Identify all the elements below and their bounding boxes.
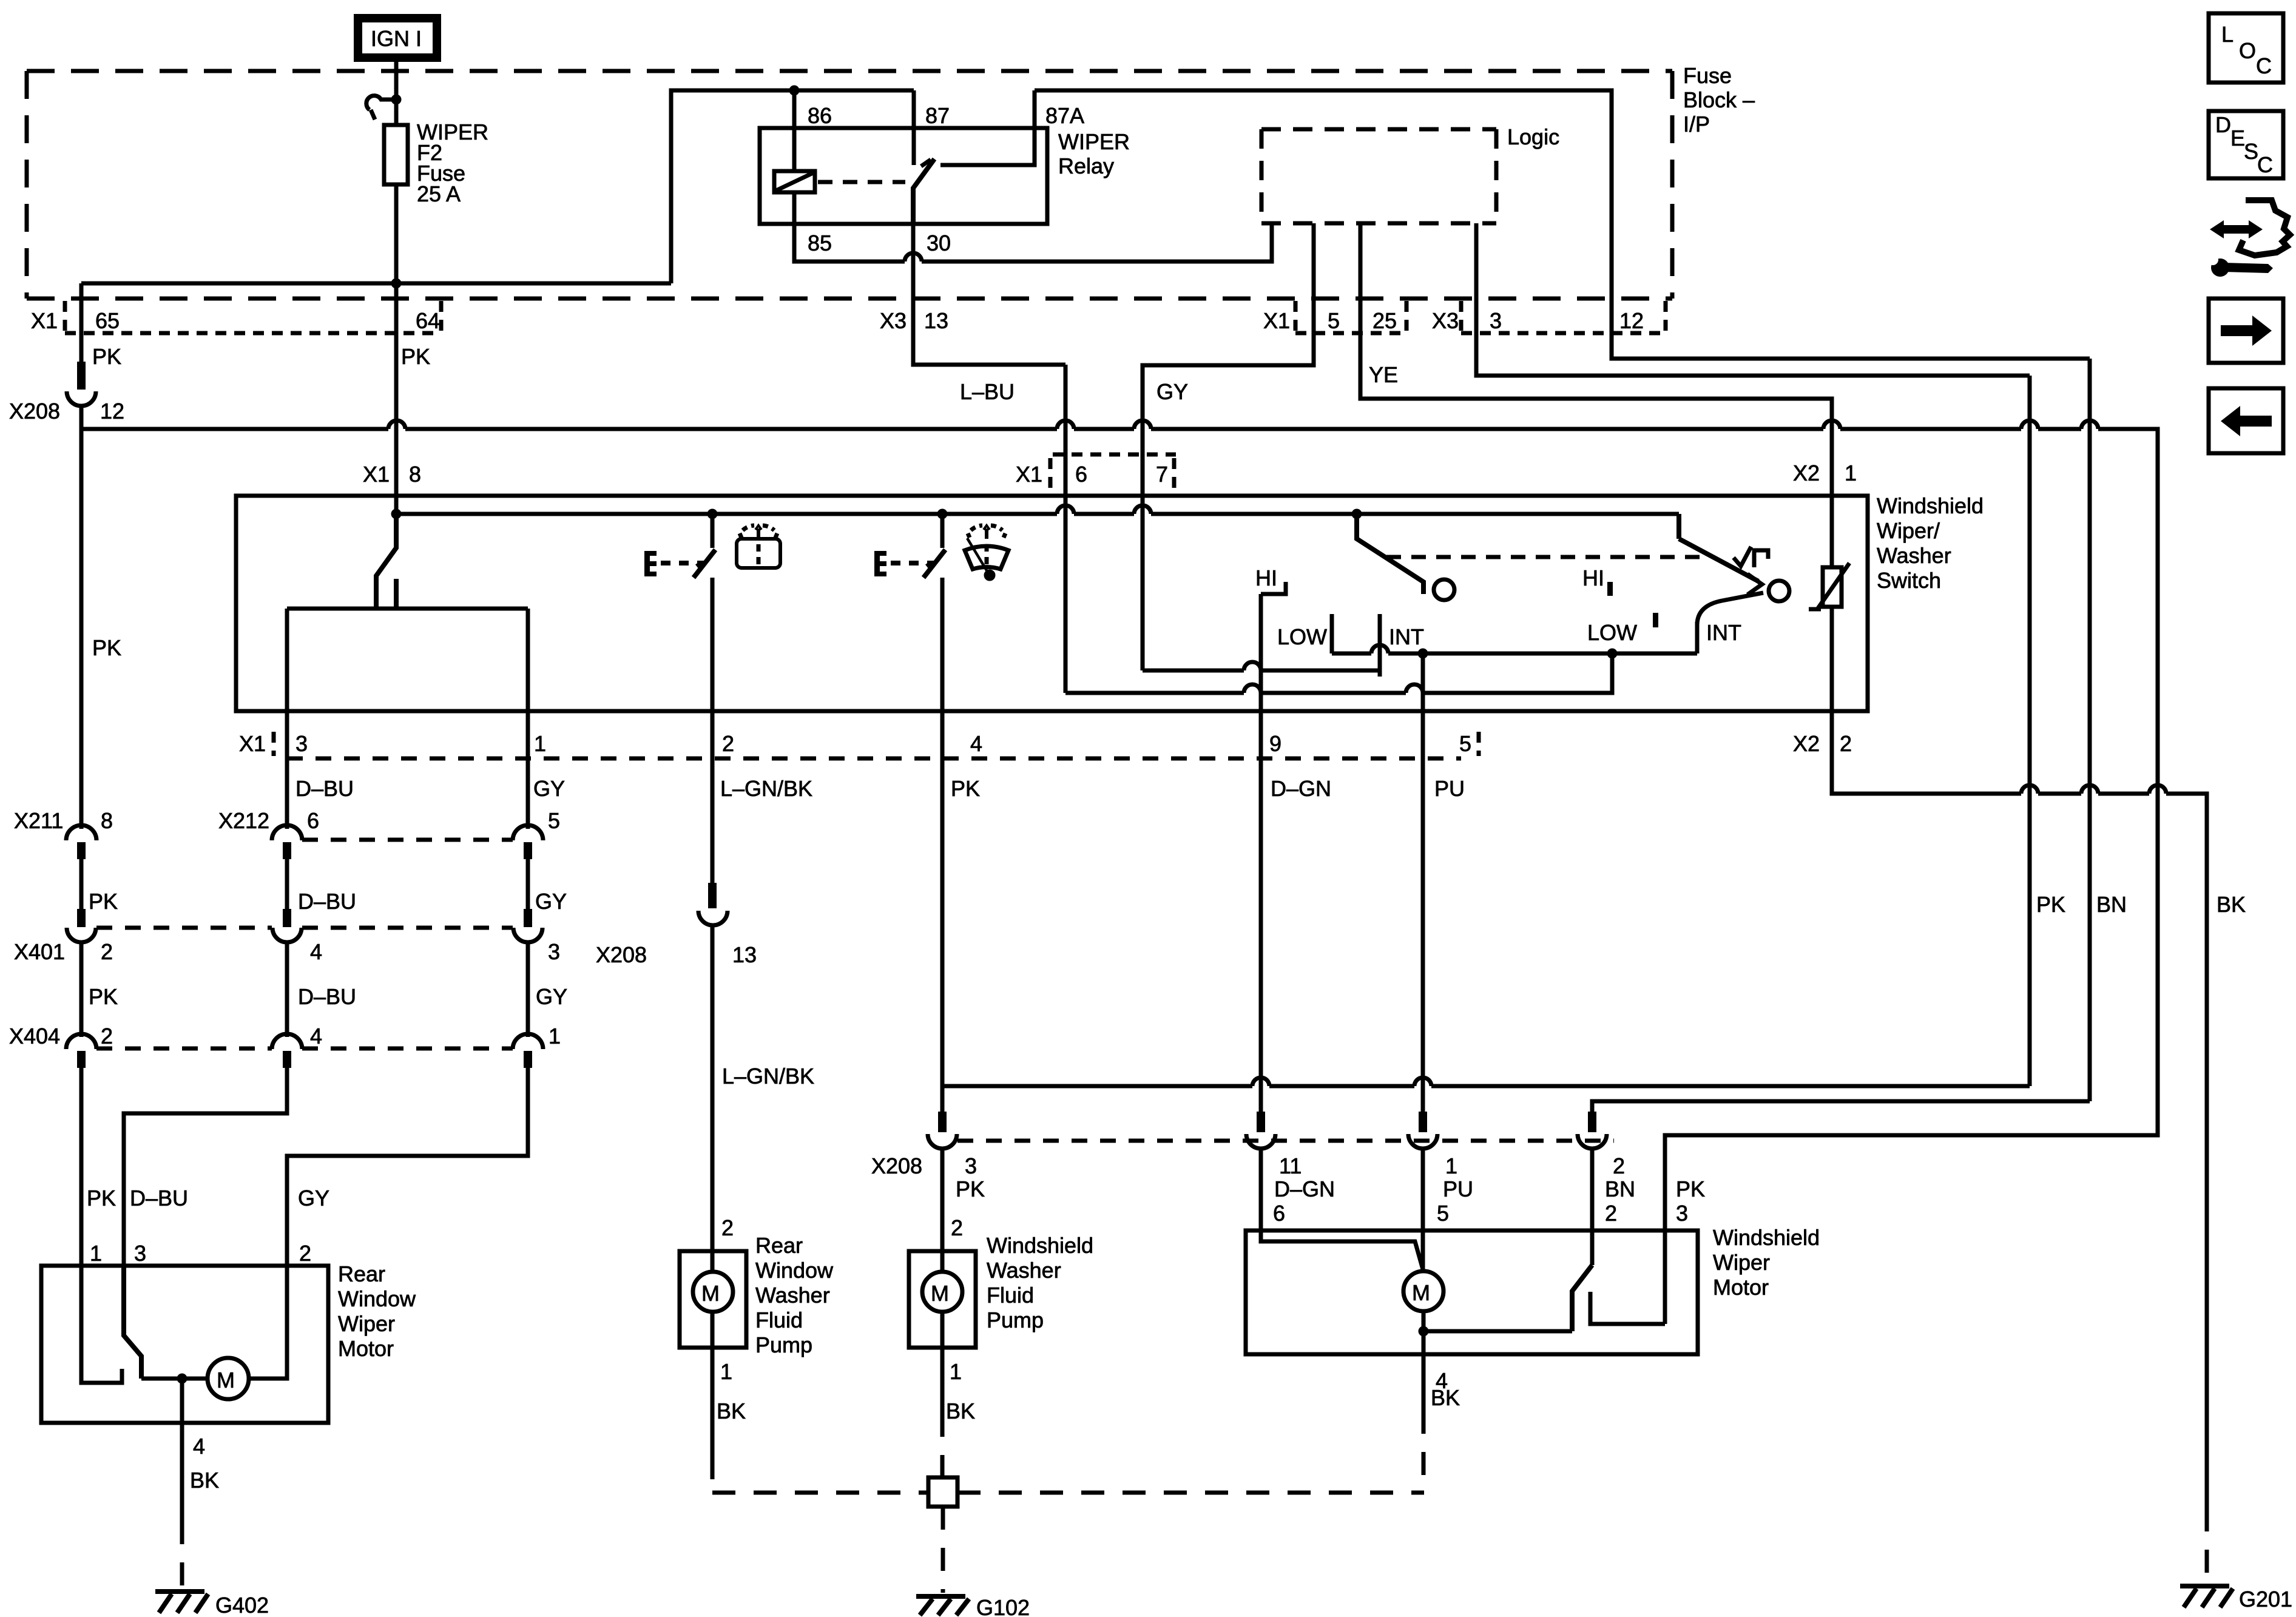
LOW right tick <box>1653 613 1658 627</box>
wire BK right dashed to G201 <box>2205 1508 2209 1582</box>
switch feed rail <box>396 512 1057 516</box>
wire relay 85 to logic continued <box>922 223 1272 262</box>
L-BU run 2 <box>1261 691 1406 695</box>
svg-text:3: 3 <box>1490 308 1502 333</box>
svg-text:PK: PK <box>956 1176 985 1201</box>
wire washer pump BK <box>940 1348 945 1414</box>
label Rear Window Washer Fluid Pump <box>755 1233 834 1357</box>
wiper motor M circle <box>1403 1271 1443 1311</box>
svg-text:Washer: Washer <box>1877 543 1951 568</box>
svg-text:PK: PK <box>89 984 118 1009</box>
logic module dashed box <box>1261 129 1496 223</box>
BK line mid <box>2038 792 2081 796</box>
svg-text:3: 3 <box>134 1241 146 1266</box>
svg-text:PK: PK <box>951 776 980 801</box>
svg-text:X2: X2 <box>1793 461 1820 485</box>
connector X208:1 cup <box>1408 1134 1437 1149</box>
tools/arrows icon <box>2207 200 2290 277</box>
connector X401:4 pin <box>283 909 291 927</box>
hop bus over X3:12 wire <box>2081 420 2098 429</box>
svg-text:Switch: Switch <box>1877 568 1941 593</box>
hop BK line over X3:3 vert <box>2021 785 2038 794</box>
connector X208:2 pin <box>1588 1112 1596 1132</box>
svg-text:1: 1 <box>1845 461 1857 485</box>
svg-text:4: 4 <box>310 939 322 964</box>
junction dot rail main blade <box>391 509 402 519</box>
junction dot LOW/L-BU <box>1607 649 1618 659</box>
svg-text:D–GN: D–GN <box>1274 1176 1335 1201</box>
svg-text:5: 5 <box>548 808 560 833</box>
rear washer switch blade <box>694 550 715 578</box>
connector X1:6/7 dashed box <box>1050 454 1176 490</box>
right selector blade diagonal <box>1679 539 1758 581</box>
svg-text:GY: GY <box>536 984 567 1009</box>
svg-text:HI: HI <box>1582 565 1604 590</box>
connector X208:3 cup <box>928 1134 957 1149</box>
speed selector blade <box>1357 514 1423 594</box>
wire X3:3 logic to right side <box>1476 223 2030 376</box>
connector X404:2 arc <box>66 1034 96 1049</box>
wire BN run <box>1592 1101 2090 1112</box>
svg-text:1: 1 <box>1445 1153 1457 1178</box>
svg-text:Windshield: Windshield <box>987 1233 1093 1258</box>
main switch fixed stub <box>394 579 399 609</box>
connector X208:13 cup <box>698 911 728 925</box>
rear motor pin2 GY internal <box>249 1266 287 1379</box>
junction dot rail selector <box>1352 509 1362 519</box>
wire L-GN/BK to rear pump <box>711 925 715 1251</box>
svg-text:2: 2 <box>722 731 734 756</box>
right blade rest circle <box>1769 581 1789 601</box>
svg-text:Window: Window <box>755 1258 834 1283</box>
svg-text:7: 7 <box>1156 462 1168 487</box>
wire D-GN to wiper motor <box>1259 1149 1263 1230</box>
svg-text:65: 65 <box>95 308 120 333</box>
rear motor blade to motor <box>141 1377 208 1381</box>
wire GY X212 to X401 <box>526 859 530 909</box>
label Windshield Washer Fluid Pump <box>987 1233 1093 1332</box>
LOW net line 2 <box>1388 652 1697 656</box>
fuse block bus hook symbol <box>366 96 393 120</box>
label WIPER F2 Fuse 25 A <box>417 120 488 206</box>
connector X208:13 pin <box>708 883 717 908</box>
svg-text:5: 5 <box>1437 1201 1449 1226</box>
svg-text:Windshield: Windshield <box>1713 1225 1820 1250</box>
ground G402 symbol <box>155 1592 208 1613</box>
hop BK line over bus vert <box>2149 785 2166 794</box>
svg-text:5: 5 <box>1459 731 1471 756</box>
svg-text:X208: X208 <box>9 399 60 424</box>
svg-text:GY: GY <box>535 889 567 914</box>
wire YE X2:1 inside switch <box>1830 492 1834 567</box>
junction dot rail washer sw2 <box>937 509 948 519</box>
BK line mid2 <box>2098 792 2149 796</box>
washer pump internal wires <box>940 1251 945 1272</box>
hop LOW net over INT stub <box>1371 645 1388 653</box>
svg-text:Motor: Motor <box>338 1336 394 1361</box>
windshield washer spray icon <box>965 525 1008 579</box>
svg-text:Block –: Block – <box>1683 87 1755 112</box>
connector row X1 bottom dashed line <box>287 757 1461 761</box>
svg-text:G201: G201 <box>2239 1587 2292 1612</box>
svg-text:85: 85 <box>808 231 832 255</box>
svg-text:GY: GY <box>298 1186 329 1210</box>
wire relay 85 coil to logic <box>794 192 905 262</box>
ground G201 symbol <box>2180 1586 2233 1607</box>
rear washer switch dashes <box>661 561 704 565</box>
connector X404:4 pin <box>283 1051 291 1068</box>
wire X3:3 net down right side <box>2028 376 2032 1086</box>
HI left contact mark <box>1261 582 1286 594</box>
svg-text:4: 4 <box>310 1024 322 1048</box>
connector row X1 65 / 64 dashed box <box>65 301 441 333</box>
power symbol IGN I <box>354 14 441 62</box>
svg-text:25 A: 25 A <box>417 181 461 206</box>
svg-text:1: 1 <box>549 1024 561 1048</box>
svg-text:6: 6 <box>1075 462 1087 487</box>
wire PU X1:5 down <box>1421 711 1425 1112</box>
wire wiper motor BK pin 4 <box>1422 1354 1426 1411</box>
GY to INT continued <box>1261 669 1380 673</box>
wire IGN feed <box>394 62 399 125</box>
svg-text:D–GN: D–GN <box>1271 776 1331 801</box>
svg-text:3: 3 <box>965 1153 977 1178</box>
wire D-BU X401 to X404 <box>285 942 289 1037</box>
wire rear motor BK pin4 <box>180 1379 184 1521</box>
svg-text:2: 2 <box>1840 731 1852 756</box>
svg-text:1: 1 <box>720 1359 732 1384</box>
wire PK bus from X208:12 <box>81 406 388 429</box>
svg-text:4: 4 <box>193 1434 205 1459</box>
svg-text:PK: PK <box>2036 892 2065 917</box>
wire sw2 lower to X1:4 <box>940 578 945 711</box>
wire wiper motor BK dashed <box>1422 1411 1426 1493</box>
connector X401:3 cup <box>513 928 542 942</box>
junction dot at fuse output <box>391 279 402 289</box>
selector mechanical dashed link <box>1386 555 1705 559</box>
svg-text:Window: Window <box>338 1286 416 1311</box>
wire relay pin 87 fixed contact <box>912 90 916 165</box>
connector X212:6 pin <box>283 842 291 859</box>
L-BU run 3 up to LOW net <box>1423 653 1612 693</box>
connector X401:2 cup <box>67 928 96 942</box>
wire X2:2 BK path <box>1832 711 2021 794</box>
rear motor M circle <box>208 1358 249 1399</box>
svg-text:X404: X404 <box>9 1024 60 1048</box>
splice square S <box>928 1477 957 1507</box>
svg-text:25: 25 <box>1373 308 1397 333</box>
wire L-BU lower run <box>1065 691 1244 695</box>
main switch bar <box>287 607 528 611</box>
nav box DESC <box>2209 111 2283 178</box>
hop rail over GY <box>1134 505 1151 514</box>
right INT contact curve <box>1697 593 1763 625</box>
wiper motor BK ground dashed <box>957 1491 1424 1495</box>
nav box arrow left <box>2209 388 2283 453</box>
wire relay pin 86 coil feed <box>792 90 797 171</box>
svg-text:GY: GY <box>533 776 565 801</box>
wire PK X1:4 down <box>940 711 945 1112</box>
junction dot wiper motor BK <box>1419 1326 1429 1337</box>
label WIPER Relay <box>1058 129 1130 178</box>
wiper motor M to dot <box>1422 1311 1426 1354</box>
rear window wiper motor box <box>41 1266 328 1423</box>
svg-text:X2: X2 <box>1793 731 1820 756</box>
svg-text:13: 13 <box>732 942 757 967</box>
wire BN to wiper motor <box>1590 1149 1595 1265</box>
svg-text:8: 8 <box>101 808 113 833</box>
svg-text:D: D <box>2215 112 2231 137</box>
hop X3:3 line over PU <box>1414 1078 1431 1086</box>
svg-text:PU: PU <box>1434 776 1465 801</box>
connector X212 dashed pair line <box>302 838 513 842</box>
svg-text:Fuse: Fuse <box>1683 63 1732 88</box>
wire D-BU X212 to X401 <box>285 859 289 909</box>
svg-text:PK: PK <box>87 1186 116 1210</box>
svg-text:PU: PU <box>1443 1176 1473 1201</box>
connector X401:3 pin <box>524 909 532 927</box>
wire YE logic X3:25 <box>1360 223 1832 492</box>
svg-text:Rear: Rear <box>755 1233 803 1258</box>
svg-text:INT: INT <box>1389 624 1424 649</box>
hop X3:3 line over D-GN <box>1252 1078 1269 1086</box>
svg-text:3: 3 <box>1676 1201 1688 1226</box>
connector X404 dashed line <box>302 1047 513 1051</box>
svg-text:X3: X3 <box>880 308 907 333</box>
wire PK bus middle2 <box>1074 427 1134 431</box>
label Windshield Wiper Motor <box>1713 1225 1820 1300</box>
svg-text:2: 2 <box>721 1215 734 1240</box>
svg-text:Wiper: Wiper <box>1713 1250 1770 1275</box>
wire GY to left INT <box>1143 669 1244 673</box>
connector X208:1 pin <box>1419 1112 1427 1132</box>
wire PK bus middle5 <box>2038 427 2081 431</box>
svg-text:M: M <box>701 1281 720 1306</box>
wire D-GN X1:9 down <box>1259 711 1263 1112</box>
wire PK bus middle4 <box>1840 427 2021 431</box>
wire PK bus middle3 <box>1151 427 1823 431</box>
right blade chevron tip <box>1747 574 1762 595</box>
wire GY X404 jog <box>287 1068 528 1266</box>
variable resistor X2 <box>1809 563 1849 609</box>
LOW left contact stub <box>1330 614 1334 653</box>
svg-text:2: 2 <box>951 1215 963 1240</box>
wire PU to wiper motor <box>1421 1149 1425 1271</box>
svg-text:BN: BN <box>2096 892 2127 917</box>
selector blade rest contact circle <box>1434 579 1454 600</box>
svg-text:M: M <box>1412 1280 1430 1305</box>
svg-text:GY: GY <box>1156 379 1188 404</box>
svg-text:13: 13 <box>924 308 948 333</box>
wire PK bus right corner down <box>1665 429 2158 1230</box>
connector row X3 3 / 12 dashed box <box>1461 301 1666 333</box>
wire rear pump BK <box>711 1348 715 1456</box>
svg-text:YE: YE <box>1369 362 1398 387</box>
svg-text:BK: BK <box>946 1399 975 1423</box>
wire X3:3 net to washer junction <box>942 1084 1252 1089</box>
wire relay pin 30 L-BU <box>913 224 1065 365</box>
svg-text:M: M <box>931 1281 949 1306</box>
wire PK left vertical to X211 <box>79 429 84 829</box>
wire BK dashed to G402 <box>180 1521 184 1589</box>
connector X208:11 cup <box>1246 1134 1275 1149</box>
label Fuse Block - I/P <box>1683 63 1755 137</box>
svg-text:D–BU: D–BU <box>130 1186 188 1210</box>
svg-text:L: L <box>2221 22 2234 47</box>
svg-text:L–GN/BK: L–GN/BK <box>722 1064 814 1089</box>
rear pump internal wires <box>711 1251 715 1272</box>
svg-text:X1: X1 <box>239 731 266 756</box>
svg-text:S: S <box>2244 139 2258 164</box>
svg-text:Motor: Motor <box>1713 1275 1769 1300</box>
connector X404:2 pin <box>77 1051 86 1068</box>
svg-text:G102: G102 <box>976 1595 1030 1617</box>
svg-text:1: 1 <box>534 731 546 756</box>
wire D-GN from HI contact <box>1259 594 1263 711</box>
svg-text:Fluid: Fluid <box>987 1283 1034 1308</box>
wire GY X401 to X404 <box>526 942 530 1037</box>
svg-text:Fluid: Fluid <box>755 1308 803 1332</box>
wire D-BU inside switch <box>285 609 289 711</box>
svg-text:Wiper: Wiper <box>338 1311 395 1336</box>
HI right tick <box>1607 582 1613 596</box>
svg-text:D–BU: D–BU <box>298 889 356 914</box>
connector X212:5 pin <box>524 842 532 859</box>
junction dot rear motor BK <box>177 1374 187 1384</box>
hop bus over GY wire <box>1134 420 1151 429</box>
connector X208:11 pin <box>1257 1112 1265 1132</box>
svg-text:PK: PK <box>92 635 121 660</box>
svg-text:87A: 87A <box>1045 103 1084 128</box>
hop bus over X1:8 wire <box>388 420 405 429</box>
wire YE resistor to X2:2 <box>1830 607 1834 711</box>
wire splice to G102 dashed <box>941 1507 945 1593</box>
relay coil-contact dashed link <box>818 180 905 184</box>
hop L-BU over PU <box>1406 684 1423 693</box>
connector row X1 bottom dashes <box>274 732 1479 756</box>
fuse block I/P dashed outline <box>27 71 1672 299</box>
svg-text:12: 12 <box>1619 308 1644 333</box>
wire X1:8 into switch <box>394 496 399 514</box>
svg-text:Pump: Pump <box>755 1332 812 1357</box>
wiper motor park wire to dot <box>1423 1329 1572 1334</box>
svg-text:X1: X1 <box>31 308 58 333</box>
svg-text:Logic: Logic <box>1507 124 1559 149</box>
hop L-BU over D-GN <box>1244 684 1261 693</box>
junction fuse tap <box>391 95 402 105</box>
svg-text:L–BU: L–BU <box>960 379 1015 404</box>
svg-text:Washer: Washer <box>755 1283 830 1308</box>
svg-text:PK: PK <box>1676 1176 1705 1201</box>
junction dot rail washer sw1 <box>707 509 718 519</box>
wire PK X404 to rear motor <box>79 1068 84 1266</box>
wire GY into switch <box>1141 496 1145 670</box>
right selector blade <box>1676 514 1681 539</box>
junction dot LOW/PU <box>1418 649 1428 659</box>
svg-text:11: 11 <box>1279 1153 1302 1178</box>
label Windshield Wiper/ Washer Switch <box>1877 493 1984 593</box>
connector X212:5 arc <box>513 825 543 840</box>
rear window washer fluid pump box <box>680 1251 746 1348</box>
windshield wiper/washer switch box <box>236 496 1868 711</box>
svg-text:PK: PK <box>92 344 121 369</box>
svg-text:86: 86 <box>808 103 832 128</box>
connector X404:1 arc <box>513 1034 543 1049</box>
connector X208:12 female cup <box>67 391 96 406</box>
wire GY logic X1:5 <box>1143 223 1314 496</box>
wire GY inside switch <box>526 609 530 711</box>
ground splice dashed bus <box>712 1491 928 1495</box>
connector X211:8 pin <box>77 842 86 859</box>
wire GY X1:1 to X212:5 <box>526 711 530 829</box>
svg-text:5: 5 <box>1328 308 1340 333</box>
windshield washer fluid pump box <box>909 1251 976 1348</box>
svg-text:8: 8 <box>409 462 421 487</box>
rear pump M circle <box>693 1272 733 1312</box>
svg-text:X208: X208 <box>871 1153 922 1178</box>
svg-text:O: O <box>2239 38 2256 63</box>
hop 85-wire over pin30 wire <box>905 253 922 262</box>
hop rail over L-BU <box>1057 505 1074 514</box>
svg-text:6: 6 <box>1273 1201 1285 1226</box>
main wiper on/off switch blade <box>376 514 396 609</box>
relay coil <box>774 171 815 192</box>
svg-text:INT: INT <box>1706 620 1741 645</box>
connector X404:1 pin <box>524 1051 532 1068</box>
svg-text:BK: BK <box>1431 1385 1460 1410</box>
hop bus over YE wire <box>1823 420 1840 429</box>
svg-text:X3: X3 <box>1432 308 1459 333</box>
svg-text:IGN I: IGN I <box>371 26 422 51</box>
svg-text:1: 1 <box>90 1241 102 1266</box>
svg-text:L–GN/BK: L–GN/BK <box>720 776 812 801</box>
connector X208:3 pin <box>938 1112 947 1132</box>
wire PK X211 to X401 <box>79 859 84 909</box>
svg-text:2: 2 <box>1605 1201 1617 1226</box>
connector X211:8 arc <box>66 825 96 840</box>
svg-text:3: 3 <box>295 731 308 756</box>
connector X208:12 male pin <box>77 362 86 390</box>
fuse F2 body <box>384 125 408 184</box>
wire rear pump BK dashed <box>711 1456 715 1493</box>
wire PK pin3 internal <box>1663 1230 1667 1324</box>
svg-text:X212: X212 <box>218 808 269 833</box>
svg-text:BK: BK <box>190 1468 219 1493</box>
svg-text:C: C <box>2256 53 2272 78</box>
connector X208:2 cup <box>1578 1134 1607 1149</box>
rear motor pin1 PK internal <box>81 1266 122 1383</box>
svg-text:4: 4 <box>970 731 982 756</box>
rear motor park blade <box>124 1266 141 1379</box>
windshield washer switch blade <box>923 550 945 578</box>
svg-text:2: 2 <box>101 1024 113 1048</box>
svg-text:WIPER: WIPER <box>1058 129 1130 154</box>
svg-text:PK: PK <box>401 344 430 369</box>
wire L-BU into switch <box>1064 365 1068 693</box>
ground G102 symbol <box>916 1596 969 1615</box>
svg-text:LOW: LOW <box>1277 624 1327 649</box>
svg-text:X401: X401 <box>14 939 65 964</box>
svg-text:2: 2 <box>101 939 113 964</box>
wire 87A parking feed across top <box>1035 90 2090 359</box>
windshield washer switch dashes <box>891 561 934 565</box>
svg-text:Washer: Washer <box>987 1258 1061 1283</box>
svg-text:12: 12 <box>100 399 124 424</box>
rear washer momentary switch E glyph <box>644 551 657 576</box>
wire L-GN/BK X1:2 down <box>711 711 715 883</box>
relay movable blade <box>913 159 934 224</box>
hop bus over L-BU wire <box>1057 420 1074 429</box>
